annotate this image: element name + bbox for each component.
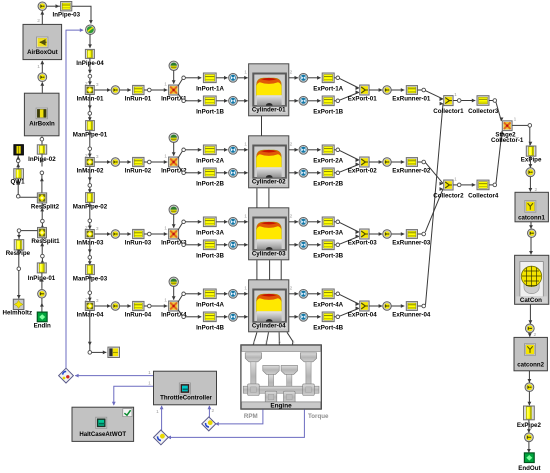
wire cylinder 4 to exhaust valve B <box>289 315 298 319</box>
wire InPort-2A to intake valve A <box>216 148 228 152</box>
controller ThrottleController (gray box) <box>154 371 217 405</box>
flowsplit Stage2_Collector-1 <box>502 121 512 131</box>
port junction after Collector4 <box>493 183 497 187</box>
wire ExPipe to orifice <box>529 156 533 168</box>
pipe ResPipe <box>14 240 24 250</box>
port junction after ExPort-2A <box>336 148 340 152</box>
wire junction to InMan-03 <box>88 223 92 230</box>
wire ExPort-03 to ExRunner-03 <box>369 232 382 236</box>
wire cylinder 4 to exhaust valve A <box>289 292 298 296</box>
port junction above ResSplit1 <box>41 219 45 223</box>
wire InPort-1A to intake valve A <box>216 76 228 80</box>
wire throttle to InPipe-04 <box>88 35 92 49</box>
pipe ExPort-2A <box>322 145 334 155</box>
pipe InPipe-04 <box>85 49 94 58</box>
orifice InRun-02 <box>111 158 120 167</box>
wire junction to InPortX4 <box>151 304 167 308</box>
svg-text:2: 2 <box>290 70 293 76</box>
pipe ExPort-4B <box>322 312 334 322</box>
wire junction to InMan-01 <box>88 78 92 85</box>
valve lift circle above InPortX3 <box>169 205 178 214</box>
wire InPortX2 to A branch <box>178 151 182 158</box>
wire InPort-3B to intake valve B <box>216 243 228 247</box>
svg-text:ResSplit1: ResSplit1 <box>31 238 60 245</box>
svg-text:1: 1 <box>164 298 167 304</box>
engine cylinder Cylinder-01 <box>249 64 289 116</box>
svg-text:InPipe-03: InPipe-03 <box>53 12 81 19</box>
manifold flowsplit InMan-03 <box>85 230 94 239</box>
pipe ExPort-1A <box>322 73 334 83</box>
wire exhaust valve A to ExPort-2A <box>308 148 321 152</box>
wire ExPort-3B out <box>334 244 336 246</box>
svg-text:2: 2 <box>37 18 40 24</box>
wire junction to end block <box>16 155 20 159</box>
svg-text:ExPort-4A: ExPort-4A <box>313 302 343 309</box>
wire exhaust valve A to ExPort-4A <box>308 292 321 296</box>
controller HaltCaseAtWOT (gray box) <box>72 407 134 441</box>
svg-text:ExPort-2A: ExPort-2A <box>313 158 343 165</box>
wire InPipe-04 down <box>88 58 92 73</box>
orifice below catconn2 <box>525 383 534 392</box>
signal wire RPM to diamond3 <box>215 410 263 426</box>
svg-text:2: 2 <box>85 153 88 159</box>
wire InPortX3 to B branch <box>178 238 182 243</box>
exhaust valve 1B <box>299 96 308 105</box>
valve lift circle above InPortX1 <box>169 61 178 70</box>
wire B to ExPort-01 junction <box>340 90 360 100</box>
wire ExPort-04 to ExRunner-04 <box>369 304 382 308</box>
svg-text:ExRunner-03: ExRunner-03 <box>392 240 431 247</box>
svg-text:Collector-1: Collector-1 <box>491 137 524 144</box>
wire ExRunner-02 to Collector2 <box>426 163 444 186</box>
wire orifice to EndOut <box>527 442 531 453</box>
wire B junction to InPort-1B <box>186 99 202 103</box>
port junction A branch 4 <box>182 292 186 296</box>
svg-text:2: 2 <box>211 408 214 414</box>
port junction after ExPort-3B <box>336 243 340 247</box>
wire orifice to InRun pipe 1 <box>120 88 131 92</box>
wire ExRunner pipe out 2 <box>418 161 422 163</box>
exhaust valve 1A <box>299 73 308 82</box>
svg-text:InRun-01: InRun-01 <box>125 96 152 103</box>
flowsplit InPortX4 <box>169 301 179 311</box>
svg-text:InPort-3A: InPort-3A <box>196 230 224 237</box>
exhaust valve 2B <box>299 168 308 177</box>
svg-text:1: 1 <box>164 226 167 232</box>
wire orifice to catconn1 <box>529 177 533 192</box>
pipe ExPort-3A <box>322 217 334 227</box>
wires cylinders to engine (gap 2) <box>257 188 269 208</box>
port junction after ExRunner-03 <box>422 232 426 236</box>
wire InPort-1B to intake valve B <box>216 99 228 103</box>
wire InMan-01 down <box>88 95 92 112</box>
pipe InPort-2A <box>203 145 216 155</box>
wire InPipe-02 down <box>40 154 44 166</box>
wire cylinder 1 to exhaust valve B <box>289 99 298 103</box>
wire AirBoxIn bottom stub <box>40 136 44 141</box>
signal wire diamond2 to ThrottleController <box>160 405 164 430</box>
wire junction to Collector3 <box>461 99 475 103</box>
wire intake valve A to cylinder 1 <box>238 76 249 80</box>
pipe InRun-03 <box>133 229 144 238</box>
wire exhaust valve B to ExPort-3B <box>308 243 321 247</box>
wire ResSplit2 left branch <box>16 179 37 197</box>
svg-text:RPM: RPM <box>244 413 258 420</box>
svg-text:HaltCaseAtWOT: HaltCaseAtWOT <box>79 431 126 438</box>
wire junction to InPortX3 <box>151 232 167 236</box>
pipe InPort-3A <box>203 217 216 227</box>
port junction above InMan-02 <box>88 147 92 151</box>
wire AirBoxOut to inlet orifice <box>40 11 44 24</box>
svg-text:1: 1 <box>156 409 159 415</box>
svg-text:Collector1: Collector1 <box>433 108 464 115</box>
intake valve 4A <box>229 289 238 298</box>
wire InPort-4B to intake valve B <box>216 315 228 319</box>
svg-text:3: 3 <box>96 226 99 232</box>
svg-text:EndIn: EndIn <box>34 322 51 329</box>
pipe Collector4 <box>477 180 489 190</box>
port junction after InRun-03 <box>148 232 152 236</box>
wire InRun pipe to junction 1 <box>144 89 147 91</box>
wire cylinder 2 to exhaust valve B <box>289 171 298 175</box>
svg-text:InPort-4B: InPort-4B <box>196 325 224 332</box>
svg-text:InPort-4A: InPort-4A <box>196 302 224 309</box>
wire exhaust valve A to ExPort-1A <box>308 76 321 80</box>
pipe ExRunner-03 <box>406 230 417 239</box>
wire InMan-04 to InRun-04 <box>94 304 110 308</box>
svg-text:Engine: Engine <box>270 403 292 410</box>
wire A to ExPort-03 junction <box>340 222 360 234</box>
junction Collector1 <box>444 96 453 106</box>
svg-text:Cylinder-02: Cylinder-02 <box>252 179 286 186</box>
wire InMan-02 to InRun-02 <box>94 160 110 164</box>
orifice (inlet) before InPipe-03 <box>38 2 47 11</box>
wire B to ExPort-03 junction <box>340 234 360 244</box>
wire ExRunner pipe out 1 <box>418 89 422 91</box>
exhaust valve 4B <box>299 312 308 321</box>
orifice ExRunner-01 <box>383 86 392 95</box>
wire InRun pipe to junction 2 <box>144 161 147 163</box>
svg-text:InRun-03: InRun-03 <box>125 240 152 247</box>
throttle valve (green) <box>86 25 96 35</box>
pipe InRun-02 <box>133 157 144 166</box>
port junction after ExPort-2B <box>336 171 340 175</box>
wire orifice to InPipe-03 <box>47 4 61 8</box>
wire ExPort-4A out <box>334 293 336 295</box>
wire orifice to ExRunner pipe 1 <box>391 88 404 92</box>
end environment EndOut (green) <box>524 453 534 463</box>
wire orifice to ExRunner pipe 3 <box>391 232 404 236</box>
port junction below InMan-02 <box>88 184 92 188</box>
wire junction to InPortX1 <box>151 88 167 92</box>
port junction right of Stage2 <box>528 124 532 128</box>
flowsplit InPortX1 <box>169 85 179 95</box>
svg-text:1: 1 <box>164 82 167 88</box>
wire orifice to CatCon <box>529 238 533 255</box>
wire cylinder 2 to exhaust valve A <box>289 148 298 152</box>
engine cylinder Cylinder-03 <box>249 208 289 260</box>
orifice below ExPipe <box>526 168 535 177</box>
svg-text:Collector4: Collector4 <box>468 192 499 199</box>
pipe ManPipe-01 <box>86 121 95 131</box>
svg-text:catconn1: catconn1 <box>518 214 545 221</box>
wire cylinder1 to engine (gap 1) <box>261 116 263 136</box>
wire lift circle to InPortX3 <box>172 215 176 229</box>
svg-text:Cylinder-03: Cylinder-03 <box>252 251 286 258</box>
wire orifice to EndIn <box>40 298 44 312</box>
svg-text:1: 1 <box>164 154 167 160</box>
wire InMan-03 down <box>88 239 92 256</box>
wire orifice to InRun pipe 4 <box>120 304 131 308</box>
port junction left of ResSplit1 <box>17 229 21 233</box>
wire A junction to InPort-3A <box>186 220 202 224</box>
wire InPort-3A to intake valve A <box>216 220 228 224</box>
port junction B branch 3 <box>182 243 186 247</box>
port junction below InMan-04 <box>88 351 92 355</box>
svg-text:ExPort-3A: ExPort-3A <box>313 230 343 237</box>
svg-text:ExPort-3B: ExPort-3B <box>313 253 343 260</box>
port junction after Collector2 <box>457 183 461 187</box>
svg-text:2: 2 <box>290 286 293 292</box>
pipe InPort-1B <box>203 96 216 106</box>
component AirBoxOut (gray box) <box>23 24 62 59</box>
pipe InPort-1A <box>203 73 216 83</box>
wire Collector1 out <box>453 100 457 102</box>
wire junction to intake end block <box>92 351 107 355</box>
intake valve 2B <box>229 168 238 177</box>
wire ExRunner pipe out 3 <box>418 233 422 235</box>
wire junction down to ExPipe <box>529 127 533 145</box>
wire InMan-03 to InRun-03 <box>94 232 110 236</box>
wire lift circle to InPortX2 <box>172 143 176 157</box>
resonator Helmholtz <box>13 299 24 309</box>
pipe ManPipe-02 <box>86 193 95 203</box>
svg-text:2: 2 <box>85 297 88 303</box>
wire B junction to InPort-2B <box>186 171 202 175</box>
wire ExPort-02 to ExRunner-02 <box>369 160 382 164</box>
intake valve 4B <box>229 312 238 321</box>
svg-text:1: 1 <box>454 92 457 98</box>
signal wire diamond3 to ThrottleController <box>208 405 212 417</box>
wire catconn2 to orifice <box>528 371 532 383</box>
pipe QW1 <box>14 169 24 179</box>
wire ResSplit2 down <box>40 203 44 219</box>
orifice below catconn1 <box>528 229 536 237</box>
flowsplit InPortX3 <box>169 229 179 239</box>
wire InPort-4A to intake valve A <box>216 292 228 296</box>
wire InRun pipe to junction 3 <box>144 233 147 235</box>
orifice InRun-01 <box>111 86 120 95</box>
svg-text:InRun-04: InRun-04 <box>125 312 152 319</box>
svg-text:Helmholtz: Helmholtz <box>3 310 33 317</box>
svg-text:ExRunner-01: ExRunner-01 <box>392 96 431 103</box>
port junction above InPipe-01 <box>41 254 45 258</box>
orifice InRun-03 <box>111 230 120 239</box>
port junction A branch 1 <box>182 76 186 80</box>
pipe ExRunner-04 <box>406 302 417 311</box>
wire InPortX4 to B branch <box>178 310 182 315</box>
intake valve 1B <box>229 96 238 105</box>
svg-text:Cylinder-04: Cylinder-04 <box>252 323 286 330</box>
orifice InRun-04 <box>111 302 120 311</box>
port junction below InMan-03 <box>88 256 92 260</box>
wire orifice to InRun pipe 3 <box>120 232 131 236</box>
wire intake valve B to cylinder 4 <box>238 315 249 319</box>
wire A to ExPort-04 junction <box>340 294 360 306</box>
pipe ExPipe2 <box>524 406 535 420</box>
wire A junction to InPort-4A <box>186 292 202 296</box>
svg-text:CatCon: CatCon <box>520 297 542 304</box>
svg-text:ExPort-1A: ExPort-1A <box>313 86 343 93</box>
wire cylinder 3 to exhaust valve A <box>289 220 298 224</box>
svg-text:InRun-02: InRun-02 <box>125 168 152 175</box>
wire AirBoxIn to orifice <box>40 82 44 93</box>
flowsplit ResSplit2 <box>37 193 46 203</box>
port junction below QW1 branch <box>16 195 20 199</box>
port junction B branch 2 <box>182 171 186 175</box>
wire junction to ResSplit2 <box>40 175 44 193</box>
wire ExPort-3A out <box>334 221 336 223</box>
pipe InPipe-01 <box>37 263 46 273</box>
wire ExRunner-03 to Collector2 <box>425 187 443 232</box>
port junction after Collector1 <box>457 99 461 103</box>
port junction above InMan-04 <box>88 291 92 295</box>
wire ExPort-2B out <box>334 172 336 174</box>
signal diamond 3 (rpm link) <box>202 417 216 431</box>
wire lift circle to InPortX4 <box>172 287 176 301</box>
port junction after ExRunner-02 <box>422 160 426 164</box>
svg-text:ExPort-03: ExPort-03 <box>348 240 377 247</box>
svg-text:1: 1 <box>514 117 517 123</box>
wire ManPipe-02 down <box>88 203 92 219</box>
wire orifice to ExRunner pipe 2 <box>391 160 404 164</box>
svg-text:ResSplit2: ResSplit2 <box>31 204 60 211</box>
end environment EndIn (green) <box>37 312 47 322</box>
wire B junction to InPort-4B <box>186 315 202 319</box>
port junction below AirBoxIn <box>40 137 44 141</box>
manifold flowsplit InMan-04 <box>85 302 94 311</box>
svg-text:InPort-1B: InPort-1B <box>196 109 224 116</box>
svg-text:AirBoxOut: AirBoxOut <box>27 49 57 56</box>
pipe InPipe-02 <box>37 145 46 154</box>
svg-text:1: 1 <box>244 70 247 76</box>
pipe InPort-4B <box>203 312 216 322</box>
svg-text:InPort-1A: InPort-1A <box>196 86 224 93</box>
wires cylinders to engine (gap 3) <box>257 260 281 280</box>
wire junction to ResSplit1 <box>41 223 45 228</box>
junction ExPort-04 <box>360 301 369 311</box>
component AirBoxIn (gray box) <box>24 93 59 136</box>
wire ResPipe down <box>17 250 21 267</box>
wire InMan-01 to InRun-01 <box>94 88 110 92</box>
wire cylinder 1 to exhaust valve A <box>289 76 298 80</box>
wire CatCon to orifice <box>529 304 533 324</box>
pipe ManPipe-03 <box>86 265 95 275</box>
wire exhaust valve B to ExPort-2B <box>308 171 321 175</box>
wire orifice to AirBoxOut <box>40 60 44 72</box>
valve lift circle above InPortX4 <box>169 277 178 286</box>
wire catconn1 to orifice <box>529 222 533 229</box>
wire ExPort-4B out <box>334 316 336 318</box>
signal diamond 2 (torque link) <box>154 430 169 445</box>
svg-text:2: 2 <box>290 214 293 220</box>
port junction B branch 4 <box>182 315 186 319</box>
port junction A branch 3 <box>182 220 186 224</box>
svg-text:Cylinder-01: Cylinder-01 <box>252 107 286 114</box>
wire cylinder 3 to exhaust valve B <box>289 243 298 247</box>
exhaust valve 3A <box>299 217 308 226</box>
wire ManPipe-03 down <box>88 275 92 291</box>
wire orifice to ExPipe2 <box>528 392 532 406</box>
wire junction to ManPipe-03 <box>88 259 92 265</box>
port junction above QW1 <box>16 159 20 163</box>
svg-text:1: 1 <box>244 286 247 292</box>
junction ExPort-02 <box>360 157 369 167</box>
wire B to ExPort-02 junction <box>340 162 360 172</box>
wire intake valve A to cylinder 2 <box>238 148 249 152</box>
svg-text:1: 1 <box>454 177 457 183</box>
svg-text:Collector2: Collector2 <box>433 192 464 199</box>
svg-text:ExPipe: ExPipe <box>521 157 542 164</box>
port junction after InRun-01 <box>148 88 152 92</box>
wire junction to InMan-02 <box>88 151 92 158</box>
wire ManPipe-01 down <box>88 131 92 147</box>
manifold flowsplit InMan-02 <box>85 158 94 167</box>
port junction after ExRunner-04 <box>422 304 426 308</box>
port junction after ExPort-3A <box>336 220 340 224</box>
svg-text:2: 2 <box>85 81 88 87</box>
wire junction to Collector4 <box>461 183 475 187</box>
svg-text:ExPort-02: ExPort-02 <box>348 168 377 175</box>
wire lift circle to InPortX1 <box>172 71 176 85</box>
wire orifice to ExRunner pipe 4 <box>391 304 404 308</box>
wire A junction to InPort-2A <box>186 148 202 152</box>
port junction above ResSplit2 <box>40 171 44 175</box>
svg-text:ExRunner-02: ExRunner-02 <box>392 168 431 175</box>
pipe ExPipe <box>526 146 536 156</box>
wire Stage2 to corner <box>512 124 528 126</box>
signal wire ThrottleController to HaltCaseAtWOT <box>112 386 153 405</box>
svg-text:1: 1 <box>37 64 40 70</box>
signal diamond 1 (throttle link) <box>59 368 74 383</box>
wire A junction to InPort-1A <box>186 76 202 80</box>
wire InPortX2 to B branch <box>178 166 182 171</box>
svg-text:3: 3 <box>96 154 99 160</box>
wire InPipe-01 to orifice <box>40 273 44 289</box>
engine block EngineCrankTrain <box>241 345 321 409</box>
wire exhaust valve A to ExPort-3A <box>308 220 321 224</box>
wire QW1 up <box>16 159 20 169</box>
port junction after ExPort-1A <box>336 76 340 80</box>
wire junction to ManPipe-01 <box>88 115 92 121</box>
port junction below ResPipe <box>17 267 21 271</box>
port junction after ExPort-1B <box>336 99 340 103</box>
wire InPort-2B to intake valve B <box>216 171 228 175</box>
wire ExPipe2 to orifice <box>527 420 531 433</box>
wire InPortX4 to A branch <box>178 295 182 302</box>
engine cylinder Cylinder-04 <box>249 280 289 332</box>
svg-text:Torque: Torque <box>308 413 329 420</box>
wires cylinders to engine (gap 4) <box>253 332 292 344</box>
svg-text:ExPort-4B: ExPort-4B <box>313 325 343 332</box>
wire ResSplit1 left branch <box>17 231 37 240</box>
signal wire throttle controller to throttle diamond <box>75 374 153 378</box>
svg-text:ExRunner-04: ExRunner-04 <box>392 312 431 319</box>
wire exhaust valve B to ExPort-4B <box>308 315 321 319</box>
svg-text:1: 1 <box>148 370 151 376</box>
wire Collector2 out <box>453 184 457 186</box>
wire orifice to InRun pipe 2 <box>120 160 131 164</box>
